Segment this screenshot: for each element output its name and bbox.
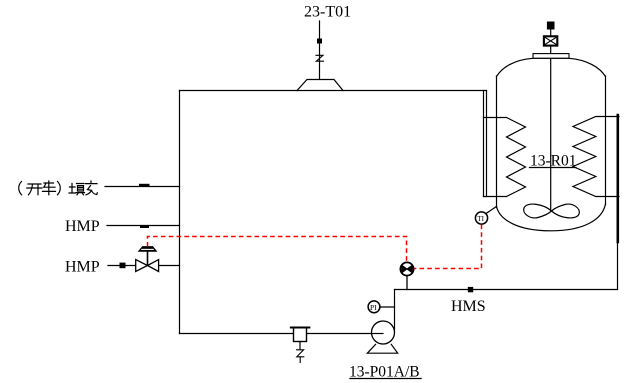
- label (kai che) tian chong - Chinese "(startup) fill" drawn as strokes: [19, 181, 98, 195]
- nozzle: top manway flange: [533, 54, 569, 59]
- vessel 13-R01: top dome: [497, 58, 606, 76]
- pipe: riser from HMS header to coil bottom: [617, 242, 619, 290]
- vessel 13-R01: left external double downcomer: [484, 91, 487, 197]
- vessel 13-R01: bottom head: [497, 204, 606, 231]
- valve: inline block (filled square) on HMS header: [468, 287, 473, 292]
- pump P1: 13-P01A/B centrifugal pump: [367, 321, 397, 353]
- svg-text:HMP: HMP: [65, 259, 100, 276]
- vessel 13-R01: shell right wall: [605, 76, 607, 205]
- instrument TV: control valve/instrument in signal path: [400, 262, 413, 289]
- valve V1: control valve body (bowtie): [136, 260, 159, 272]
- agitator shaft: [550, 30, 552, 212]
- svg-text:13-P01A/B: 13-P01A/B: [349, 363, 420, 380]
- instrument TI: temperature indicator on vessel bottom: [475, 207, 496, 225]
- svg-text:HMS: HMS: [451, 298, 486, 315]
- signal: red dashed from TI to TV: [414, 225, 481, 269]
- pipe: (startup) fill feed line: [105, 186, 180, 188]
- pipe: circulation loop bottom run to pump suction: [180, 333, 372, 335]
- svg-text:HMP: HMP: [65, 218, 100, 235]
- pipe: HMS return header: [395, 289, 618, 291]
- fitting: spec-break tick on fill line: [139, 184, 150, 187]
- pipe: circulation loop left riser: [179, 91, 181, 334]
- svg-text:TI: TI: [477, 215, 484, 223]
- pipe: vent line to 23-T01: [319, 21, 321, 79]
- strainer/drain pot on bottom run: [291, 328, 310, 363]
- pipe: coil bottom cap / connector left: [484, 196, 507, 198]
- pipe: HMP feed line lower (through control valve): [108, 265, 180, 267]
- coil: left heating coil: [484, 118, 526, 197]
- valve: inline block (filled square) on vent line: [317, 39, 322, 44]
- svg-text:PI: PI: [370, 303, 377, 312]
- instrument PI: pressure gauge at pump discharge: [368, 301, 394, 313]
- valve V1: hand actuator cap: [139, 247, 156, 252]
- svg-text:23-T01: 23-T01: [304, 3, 351, 20]
- motor M: motor box with X: [544, 36, 557, 45]
- signal: red dashed from HMP control valve to TV: [148, 225, 482, 269]
- coil: right heating coil: [573, 117, 619, 197]
- motor: coupling filled square: [547, 22, 555, 30]
- pipe: circulation loop top header: [180, 90, 487, 92]
- nozzle: vent trapezoid on top header: [297, 80, 343, 91]
- valve V1: stem: [147, 251, 149, 266]
- pipe: right coil external header (thick): [616, 115, 619, 242]
- valve: inline block (filled square) on lower HMP line: [120, 263, 126, 269]
- fitting: spec-break tick on upper HMP line: [140, 225, 149, 228]
- pipe: HMP feed line upper: [107, 225, 180, 227]
- vessel 13-R01: shell left wall: [496, 76, 498, 208]
- pipe: pump discharge riser: [394, 290, 396, 332]
- agitator impeller blades: [524, 204, 552, 218]
- fitting: pipe-break Z symbol on vent line: [316, 55, 324, 61]
